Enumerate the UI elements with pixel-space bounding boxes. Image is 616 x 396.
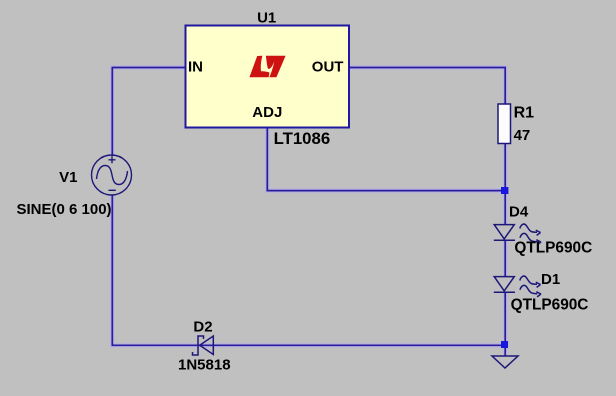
svg-text:D4: D4 xyxy=(509,203,529,220)
svg-text:ADJ: ADJ xyxy=(252,104,282,121)
svg-text:1N5818: 1N5818 xyxy=(178,356,231,373)
svg-text:SINE(0 6 100): SINE(0 6 100) xyxy=(17,201,112,218)
svg-text:QTLP690C: QTLP690C xyxy=(514,240,592,257)
svg-text:LT1086: LT1086 xyxy=(274,129,331,148)
svg-text:U1: U1 xyxy=(257,9,276,26)
svg-text:R1: R1 xyxy=(514,104,535,121)
svg-text:V1: V1 xyxy=(59,169,77,186)
svg-text:D2: D2 xyxy=(193,318,212,335)
svg-text:OUT: OUT xyxy=(312,59,344,76)
svg-text:IN: IN xyxy=(188,59,203,76)
svg-text:QTLP690C: QTLP690C xyxy=(511,296,589,313)
svg-text:D1: D1 xyxy=(541,271,560,288)
svg-text:47: 47 xyxy=(514,127,531,144)
